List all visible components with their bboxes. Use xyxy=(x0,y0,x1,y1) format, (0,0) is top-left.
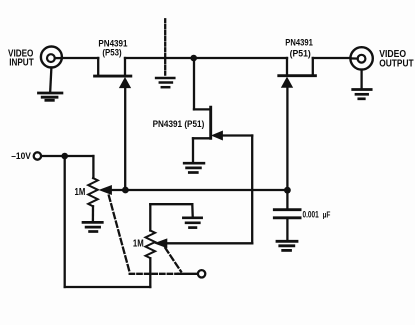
label -10V xyxy=(11,151,31,161)
transistor Q1 PN4391 (P53) xyxy=(95,58,131,88)
node (junction -10V bus) xyxy=(61,153,68,160)
wire Q3 gate to node B xyxy=(286,87,288,190)
label VIDEO INPUT xyxy=(8,49,34,69)
node B (junction Q3 gate / C1) xyxy=(284,187,291,194)
node A (junction Q1 gate / bus) xyxy=(122,187,129,194)
wiper arrow R2 xyxy=(155,239,167,247)
dashed control line (switch) xyxy=(164,19,166,76)
ground (below Q2) xyxy=(184,163,204,172)
svg-text:–10V: –10V xyxy=(11,151,31,161)
connector J1 (VIDEO INPUT BNC) xyxy=(41,47,62,68)
dashed link R1 wiper to switch terminal xyxy=(109,196,130,273)
wire gate bus (R1 wiper to node B) xyxy=(111,189,288,191)
ground (below VIDEO INPUT) xyxy=(39,93,62,100)
svg-text:1M: 1M xyxy=(75,187,86,198)
svg-text:(P53): (P53) xyxy=(102,47,121,57)
ground (dashed control line) xyxy=(156,78,174,87)
connector J2 (VIDEO OUTPUT BNC) xyxy=(350,47,372,69)
wire T1 to R1 top xyxy=(41,156,93,178)
ground (below R1) xyxy=(83,222,102,231)
resistor R2 1M potentiometer xyxy=(146,204,156,258)
wire Q1 gate to node A xyxy=(124,87,126,190)
label VIDEO OUTPUT xyxy=(379,49,413,70)
label 0.001 uF xyxy=(303,210,331,220)
svg-text:OUTPUT: OUTPUT xyxy=(379,59,413,70)
capacitor C1 xyxy=(274,190,300,240)
wire J2 to ground xyxy=(360,70,362,88)
wire Q2 gate link to R2 wiper xyxy=(168,136,253,244)
wire J1 to Q1 source xyxy=(62,57,99,59)
node (junction top bus to Q2 source) xyxy=(190,55,197,62)
svg-text:PN4391: PN4391 xyxy=(285,38,313,49)
label PN4391 (P53) xyxy=(98,38,128,57)
svg-text:1M: 1M xyxy=(133,239,144,250)
label PN4391 (P51) right xyxy=(285,38,313,59)
dashed link R2 wiper to switch terminal xyxy=(165,248,181,272)
wire to terminal T2 xyxy=(178,273,198,275)
ground (below C1) xyxy=(277,241,297,250)
svg-text:(P51): (P51) xyxy=(290,49,311,59)
svg-text:PN4391 (P51): PN4391 (P51) xyxy=(153,118,205,129)
label 1M (R1) xyxy=(75,187,86,198)
wire Q3 drain to J2 xyxy=(313,57,351,59)
dashed link horizontal xyxy=(130,273,178,275)
terminal T2 (switch control) xyxy=(198,270,205,277)
ground (R2 top) xyxy=(183,218,201,228)
terminal T1 (-10V) xyxy=(34,152,41,159)
svg-text:µF: µF xyxy=(323,210,331,220)
svg-text:0.001: 0.001 xyxy=(303,210,319,220)
wire R2 top to ground xyxy=(150,204,192,216)
label 1M (R2) xyxy=(133,239,144,250)
transistor Q3 PN4391 (P51) xyxy=(279,58,316,87)
resistor R1 1M potentiometer xyxy=(88,178,98,206)
wiper arrow R1 xyxy=(100,186,111,195)
wire R2 bottom to -10V return xyxy=(65,156,151,287)
transistor Q2 PN4391 (P51) xyxy=(193,58,222,162)
ground (below VIDEO OUTPUT) xyxy=(353,90,372,99)
svg-text:INPUT: INPUT xyxy=(9,58,34,69)
label PN4391 (P51) middle xyxy=(153,118,205,129)
wire R1 bottom to ground xyxy=(92,206,94,221)
wire J1 to ground xyxy=(50,68,51,92)
wire top bus Q1 drain to Q3 source xyxy=(125,57,287,59)
